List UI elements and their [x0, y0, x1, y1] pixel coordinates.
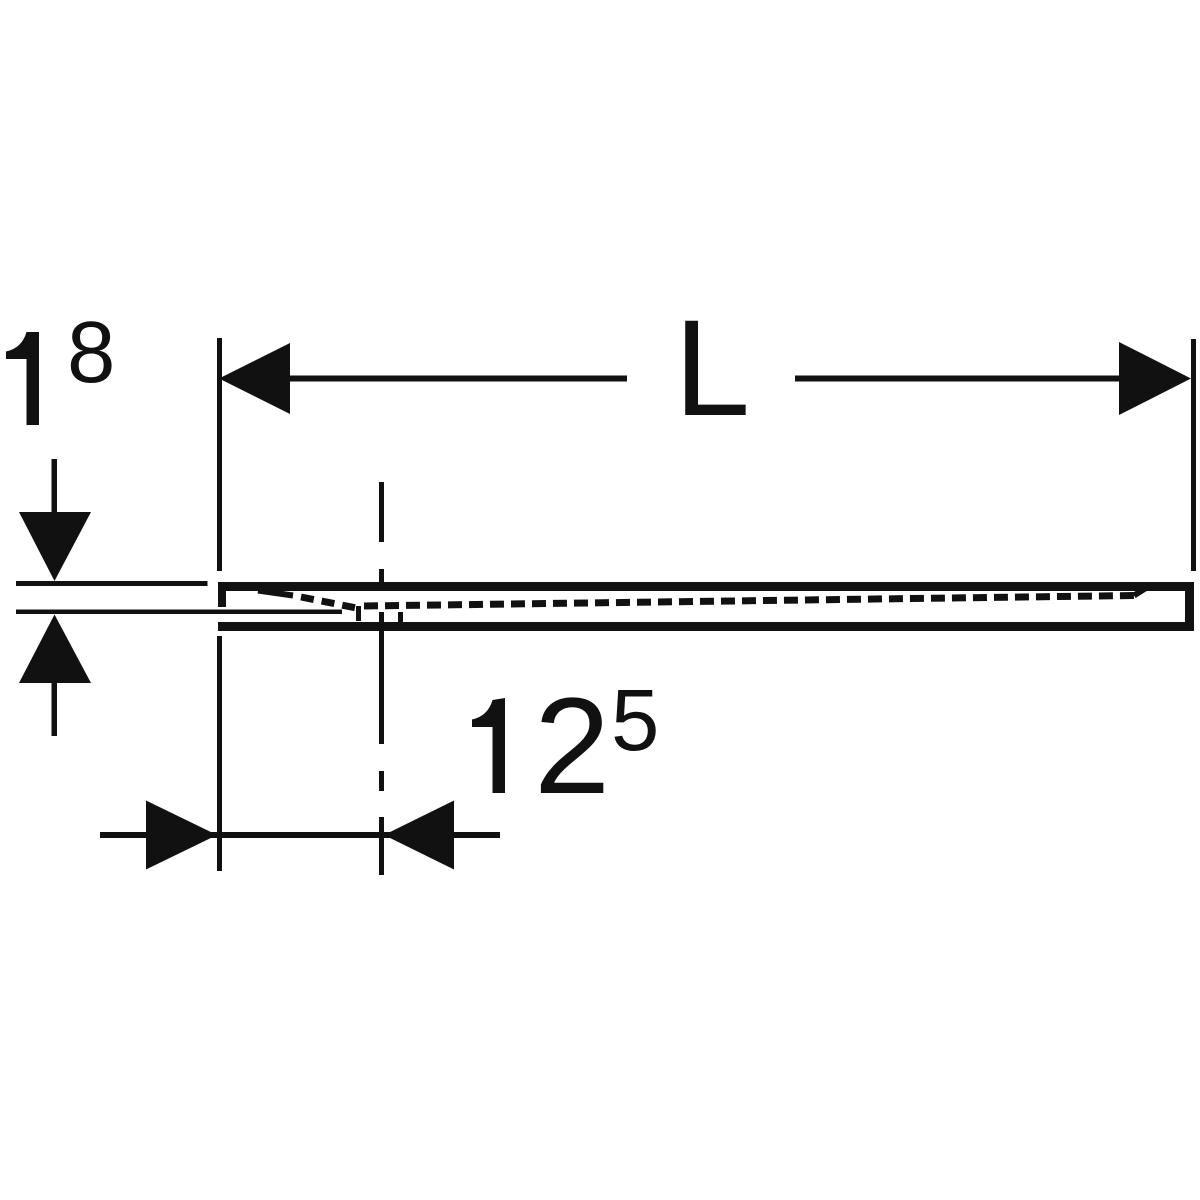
tray bottom edge	[218, 622, 1194, 631]
L dim line left segment	[290, 376, 627, 382]
svg-text:5: 5	[611, 672, 659, 769]
thickness dim up arrow	[19, 615, 91, 684]
L dim left arrow	[219, 343, 290, 414]
center line segment 4	[379, 817, 384, 875]
tray floor hidden line (dashed)	[364, 596, 1134, 607]
12.5 dim right arrow	[384, 801, 454, 870]
thickness dim upper stem	[52, 459, 58, 512]
L dim right extension line	[1191, 339, 1196, 571]
drain recess right hidden edge	[398, 612, 403, 624]
12.5 dim left arrow	[146, 801, 217, 870]
tray top edge	[218, 582, 1194, 591]
thickness lower extension line	[16, 610, 342, 615]
svg-text:2: 2	[534, 670, 610, 823]
tray left wall	[218, 582, 226, 607]
L dim line right segment	[795, 376, 1119, 382]
drain recess left hidden edge	[356, 606, 361, 621]
thickness dim down arrow	[19, 512, 91, 581]
tray floor slope solid start	[258, 591, 293, 596]
tray right wall	[1185, 582, 1194, 631]
L dim right arrow	[1119, 342, 1191, 415]
svg-text:8: 8	[67, 304, 115, 401]
center line dot	[379, 771, 384, 791]
L dim left extension line	[217, 338, 222, 571]
thickness upper extension line	[16, 581, 208, 586]
thickness dim lower stem	[52, 683, 58, 736]
svg-text:L: L	[674, 292, 750, 445]
tray floor slope hidden (dashed)	[301, 597, 359, 609]
tray floor hook to rim	[1134, 588, 1146, 596]
center line segment 1	[379, 482, 384, 542]
center line segment 2	[379, 569, 384, 583]
12.5 dim left extension line	[217, 636, 222, 871]
12.5 dim line	[100, 832, 500, 838]
label 1 of 12 (dimension value 12.5)	[472, 698, 505, 793]
center line segment 3	[379, 612, 384, 744]
label 1^8 (thickness value 1.8)	[6, 332, 39, 425]
